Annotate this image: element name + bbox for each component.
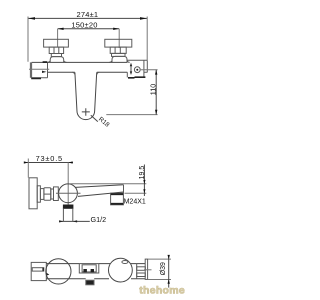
left knob centerline	[57, 29, 59, 48]
bottom view right circle	[109, 258, 133, 282]
dimension 150±20 left arrow	[58, 28, 64, 30]
spout base inner rect	[82, 265, 96, 272]
spout end block bottom band	[111, 203, 123, 205]
spout front outline	[75, 72, 97, 119]
dimension 110 line	[155, 70, 157, 115]
extension line wall	[27, 159, 29, 178]
bar body top line	[32, 61, 128, 63]
right handle dome union	[112, 56, 127, 62]
left end inner line	[29, 68, 49, 70]
svg-text:73±0.5: 73±0.5	[36, 154, 63, 163]
valve crosshair	[56, 192, 81, 194]
connector sleeve	[37, 186, 40, 202]
spout side bottom line	[78, 192, 124, 196]
dimension 19.5 arrows	[143, 180, 145, 193]
extension line left 274	[27, 17, 29, 62]
bar body bottom line	[48, 71, 128, 73]
right end mini dim arrows	[130, 63, 132, 75]
bottom view left slot	[32, 268, 44, 271]
spout bottom center cross	[82, 108, 90, 116]
right end bracket box	[127, 60, 147, 77]
dia39 dim line	[168, 255, 170, 287]
aerator block under valve	[63, 205, 74, 209]
bracket left edge	[136, 264, 138, 279]
bottom view left cap	[31, 262, 46, 280]
right end bracket thick base	[128, 76, 145, 79]
right handle hex nut	[110, 47, 126, 53]
side view valve centerline	[67, 163, 69, 207]
svg-text:G1/2: G1/2	[91, 215, 107, 224]
dimension 73 left arrow	[24, 161, 29, 163]
dimension 274±1 line	[28, 17, 147, 19]
dia39 ext bottom	[148, 279, 171, 281]
extension line right 274	[146, 17, 148, 61]
bottom view bar bottom	[46, 278, 145, 280]
svg-text:thehome: thehome	[139, 285, 185, 297]
bar top dark dash	[43, 61, 48, 63]
right end screw hole center	[136, 69, 138, 71]
dia39 ext top	[148, 258, 171, 260]
right dome base fillets	[109, 61, 129, 63]
wall flange side	[29, 178, 37, 209]
left end inner arrow	[42, 71, 47, 73]
right knob centerline	[118, 29, 120, 48]
spout end block top band	[111, 193, 123, 195]
bottom view oval detail	[122, 261, 128, 264]
right handle step	[112, 53, 126, 56]
svg-text:19.5: 19.5	[139, 166, 146, 180]
hex nut side	[44, 188, 51, 200]
svg-text:150±20: 150±20	[71, 20, 97, 29]
dimension 274±1 left arrow	[28, 17, 35, 20]
svg-text:Ø39: Ø39	[160, 262, 167, 275]
svg-text:110: 110	[148, 84, 157, 95]
extension line spout bottom	[106, 114, 157, 116]
R18 leader	[91, 115, 98, 121]
left handle cap	[44, 39, 69, 47]
left end cap front	[30, 62, 47, 77]
bracket slot lower	[137, 273, 146, 277]
bottom view left circle	[46, 259, 71, 284]
dimension 110 arrows	[155, 70, 157, 115]
left dome base fillets	[48, 61, 67, 63]
dia39 arrows	[168, 255, 170, 284]
left handle step	[51, 54, 61, 57]
svg-text:R18: R18	[97, 116, 111, 129]
svg-text:274±1: 274±1	[76, 10, 98, 19]
bottom view centerline right	[144, 269, 152, 271]
bottom view left arrow	[46, 272, 49, 275]
connector neck	[40, 189, 44, 200]
bracket slot upper	[137, 267, 146, 271]
extension line bar center right	[141, 69, 158, 71]
spout side top line	[75, 185, 123, 188]
dimension 150±20 right arrow	[113, 28, 119, 30]
spout top fillets	[72, 72, 99, 74]
dimension 19.5 line	[143, 165, 145, 197]
left handle hex nut	[49, 47, 63, 53]
spout end block outline	[111, 193, 124, 205]
left end cap thick base	[31, 77, 41, 79]
bottom view bar top	[46, 263, 145, 265]
check valve tube	[63, 208, 72, 221]
right end screw hole	[134, 67, 140, 73]
right handle cap	[105, 39, 132, 47]
bottom view end cap	[145, 259, 147, 279]
spout base outer rect	[79, 264, 99, 273]
dimension 73 right arrow	[68, 161, 73, 163]
dimension 19.5 ext top	[70, 183, 147, 185]
dimension 150±20 line	[58, 28, 120, 30]
step ring	[51, 189, 54, 199]
spout base dark squares	[83, 269, 87, 272]
left handle dome union	[50, 57, 64, 63]
washer ring	[54, 187, 59, 201]
svg-text:M24X1: M24X1	[124, 199, 146, 206]
valve body circle	[59, 184, 78, 203]
dimension 19.5 ext bottom	[125, 192, 147, 194]
tube bottom arrows	[59, 220, 77, 222]
dimension 73±0.5 line	[25, 162, 74, 164]
spout side end edge	[123, 185, 125, 193]
dimension 274±1 right arrow	[140, 17, 147, 20]
aerator from below	[86, 280, 94, 285]
G1/2 leader line	[59, 220, 90, 222]
